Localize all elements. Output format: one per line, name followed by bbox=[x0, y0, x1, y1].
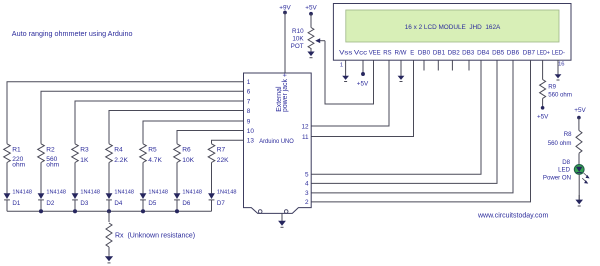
svg-text:LED+: LED+ bbox=[537, 50, 550, 57]
wire VEE to R10 wiper bbox=[325, 41, 374, 104]
svg-text:D2: D2 bbox=[46, 200, 54, 207]
ground at LCD LED- bbox=[555, 60, 562, 80]
svg-text:D5: D5 bbox=[148, 200, 156, 207]
wire Arduino pin 10 to R6 bbox=[177, 131, 244, 144]
svg-text:1: 1 bbox=[247, 79, 251, 86]
svg-text:LED: LED bbox=[558, 167, 570, 174]
svg-text:D3: D3 bbox=[80, 200, 88, 207]
label R10 10K POT bbox=[291, 28, 305, 50]
Arduino right pin number labels bbox=[301, 123, 309, 206]
svg-text:5: 5 bbox=[305, 172, 309, 179]
junction dot at x=143 bbox=[141, 209, 145, 213]
wire +5V to R10 bbox=[310, 14, 312, 28]
svg-text:R/W: R/W bbox=[395, 50, 407, 57]
junction dot at x=41 bbox=[39, 209, 43, 213]
resistor R5 bbox=[140, 144, 147, 163]
ground at LCD R/W bbox=[398, 60, 405, 81]
LCD green screen bbox=[346, 10, 559, 42]
wire DB6 to Arduino pin 3 bbox=[311, 60, 513, 193]
diode D1 1N4148 bbox=[4, 193, 11, 200]
website text bbox=[477, 212, 548, 219]
wire D7 to rail bbox=[211, 200, 213, 212]
svg-text:R9: R9 bbox=[548, 83, 556, 90]
label Rx (Unknown resistance) bbox=[115, 232, 195, 239]
ground below D8 bbox=[575, 195, 583, 206]
wire Arduino pin 1 to R1 bbox=[7, 82, 244, 144]
diode D3 1N4148 bbox=[72, 193, 79, 200]
svg-text:D6: D6 bbox=[182, 200, 190, 207]
svg-text:560 ohm: 560 ohm bbox=[548, 91, 572, 98]
svg-text:560 ohm: 560 ohm bbox=[548, 140, 572, 147]
title text bbox=[12, 29, 133, 38]
wire D3 to rail bbox=[74, 200, 76, 212]
label R8 560 ohm bbox=[548, 131, 572, 147]
diode D4 1N4148 bbox=[106, 193, 113, 200]
svg-text:1N4148: 1N4148 bbox=[114, 189, 134, 195]
wire D4 to rail bbox=[108, 200, 110, 212]
svg-text:D7: D7 bbox=[217, 200, 225, 207]
resistor R3 bbox=[72, 144, 79, 163]
wire DB4 to Arduino pin 5 bbox=[311, 60, 481, 174]
wire R7 to D7 bbox=[211, 163, 213, 194]
svg-text:16 x 2 LCD MODULE JHD 162A: 16 x 2 LCD MODULE JHD 162A bbox=[405, 24, 501, 31]
svg-text:1N4148: 1N4148 bbox=[217, 189, 237, 195]
LCD module outline bbox=[333, 4, 571, 61]
wire R6 to D6 bbox=[176, 163, 178, 194]
wire R4 to D4 bbox=[108, 163, 110, 194]
Arduino left pin number labels bbox=[247, 79, 255, 145]
label D6 1N4148 bbox=[182, 189, 202, 207]
wire DB5 to Arduino pin 4 bbox=[311, 60, 497, 183]
wire R1 to D1 bbox=[6, 163, 8, 194]
wire E to Arduino pin 11 bbox=[311, 60, 413, 136]
diode D2 1N4148 bbox=[38, 193, 45, 200]
wire rail to Rx bbox=[108, 211, 110, 222]
svg-text:DB4: DB4 bbox=[477, 50, 490, 57]
wire R8 to D8 bbox=[578, 153, 580, 164]
svg-text:R8: R8 bbox=[564, 131, 572, 138]
wire +5V to R8 bbox=[578, 118, 580, 131]
svg-text:R10: R10 bbox=[292, 28, 304, 35]
wire D2 to rail bbox=[40, 200, 42, 212]
svg-text:ohm: ohm bbox=[46, 162, 59, 169]
wire Rx to ground bbox=[108, 247, 110, 256]
svg-text:DB0: DB0 bbox=[418, 50, 431, 57]
label R2 value bbox=[46, 146, 59, 168]
wire Arduino pin 9 to R5 bbox=[143, 121, 244, 144]
label R6 value bbox=[182, 146, 194, 164]
node +5V for R8 bbox=[574, 107, 586, 120]
wire Arduino pin 6 to R2 bbox=[41, 91, 244, 144]
svg-text:6: 6 bbox=[247, 89, 251, 96]
label D2 1N4148 bbox=[46, 189, 66, 207]
svg-text:1N4148: 1N4148 bbox=[182, 189, 202, 195]
label D5 1N4148 bbox=[148, 189, 168, 207]
wire R2 to D2 bbox=[40, 163, 42, 194]
Arduino UNO U1 outline bbox=[244, 73, 312, 213]
svg-text:16: 16 bbox=[558, 62, 564, 68]
label D3 1N4148 bbox=[80, 189, 100, 207]
wire D5 to rail bbox=[142, 200, 144, 212]
resistor R9 bbox=[540, 80, 546, 99]
wire DB2 stub bbox=[451, 60, 453, 70]
svg-text:4: 4 bbox=[305, 181, 309, 188]
svg-text:R5: R5 bbox=[148, 146, 157, 153]
svg-text:DB7: DB7 bbox=[523, 50, 536, 57]
svg-text:DB6: DB6 bbox=[507, 50, 520, 57]
wire D8 to ground bbox=[578, 174, 580, 199]
svg-text:10K: 10K bbox=[292, 36, 304, 43]
resistor R7 bbox=[208, 144, 215, 163]
svg-text:+5V: +5V bbox=[574, 107, 586, 114]
label R4 value bbox=[114, 146, 128, 164]
svg-text:11: 11 bbox=[302, 134, 309, 141]
svg-text:10K: 10K bbox=[182, 157, 194, 164]
svg-text:R1: R1 bbox=[12, 146, 21, 153]
label D8 LED Power ON bbox=[543, 159, 571, 181]
Arduino connector circle left bbox=[258, 210, 262, 214]
svg-text:E: E bbox=[410, 50, 414, 57]
node +5V below R9 bbox=[537, 106, 549, 120]
wire D6 to rail bbox=[176, 200, 178, 212]
svg-text:R2: R2 bbox=[46, 146, 55, 153]
svg-text:22K: 22K bbox=[217, 157, 229, 164]
diode D7 1N4148 bbox=[208, 193, 215, 200]
svg-text:DB5: DB5 bbox=[492, 50, 505, 57]
wire D1 to rail bbox=[6, 200, 8, 212]
label R1 value bbox=[12, 146, 25, 168]
wire R9 to +5V bbox=[542, 98, 544, 106]
svg-text:13: 13 bbox=[247, 138, 255, 145]
svg-text:VEE: VEE bbox=[369, 50, 381, 57]
LCD pin 1 number label bbox=[340, 63, 343, 69]
resistor R4 bbox=[106, 144, 113, 163]
resistor R8 bbox=[576, 131, 582, 154]
svg-text:R6: R6 bbox=[182, 146, 191, 153]
ground below Arduino bbox=[278, 213, 286, 227]
label R7 value bbox=[217, 146, 229, 164]
wire bottom common rail bbox=[7, 210, 212, 212]
wire +9V to Arduino power jack bbox=[284, 13, 286, 74]
svg-text:R7: R7 bbox=[217, 146, 226, 153]
svg-text:2.2K: 2.2K bbox=[114, 157, 128, 164]
svg-text:1: 1 bbox=[340, 63, 343, 69]
ground at LCD Vss bbox=[342, 60, 349, 81]
label R3 value bbox=[80, 146, 89, 164]
junction dot at x=177 bbox=[175, 209, 179, 213]
node +9V supply bbox=[279, 5, 291, 15]
svg-text:R4: R4 bbox=[114, 146, 123, 153]
svg-text:1K: 1K bbox=[80, 157, 89, 164]
svg-text:D1: D1 bbox=[12, 200, 20, 207]
svg-text:1N4148: 1N4148 bbox=[46, 189, 66, 195]
LED D8 emission arrows bbox=[582, 173, 589, 184]
node +5V at Vcc bbox=[357, 72, 369, 88]
svg-text:1N4148: 1N4148 bbox=[148, 189, 168, 195]
svg-text:+5V: +5V bbox=[357, 81, 369, 88]
label D7 1N4148 bbox=[217, 189, 237, 207]
resistor R6 bbox=[174, 144, 181, 163]
potentiometer R10 bbox=[308, 28, 314, 49]
resistor R2 bbox=[38, 144, 45, 163]
svg-text:ohm: ohm bbox=[12, 162, 25, 169]
node +5V supply (pot) bbox=[305, 5, 317, 16]
svg-text:D4: D4 bbox=[114, 200, 122, 207]
LED D8 bbox=[574, 165, 584, 175]
wire Arduino pin 7 to R3 bbox=[75, 101, 244, 144]
wire R5 to D5 bbox=[142, 163, 144, 194]
svg-text:1N4148: 1N4148 bbox=[12, 189, 32, 195]
svg-text:2: 2 bbox=[305, 199, 309, 206]
svg-text:3: 3 bbox=[305, 190, 309, 197]
wire Arduino pin 13 to R7 bbox=[212, 140, 244, 144]
label R5 value bbox=[148, 146, 162, 164]
R10 wiper arrow bbox=[315, 38, 325, 43]
LCD pin name labels bbox=[339, 50, 565, 57]
wire DB7 to Arduino pin 2 bbox=[311, 60, 530, 202]
svg-text:Rx (Unknown resistance): Rx (Unknown resistance) bbox=[115, 232, 195, 239]
svg-text:7: 7 bbox=[247, 98, 251, 105]
svg-text:POT: POT bbox=[291, 43, 304, 50]
LCD pin 16 number label bbox=[558, 62, 564, 68]
wire Vss pin bbox=[345, 59, 347, 61]
svg-text:9: 9 bbox=[247, 118, 251, 125]
wire DB3 stub bbox=[468, 60, 470, 70]
wire Arduino pin 8 to R4 bbox=[109, 111, 244, 144]
wire Vcc pin bbox=[362, 60, 364, 73]
svg-text:LED-: LED- bbox=[552, 50, 565, 57]
svg-text:Vss: Vss bbox=[339, 50, 352, 57]
svg-text:Auto ranging ohmmeter using Ar: Auto ranging ohmmeter using Arduino bbox=[12, 29, 133, 38]
svg-text:Arduino UNO: Arduino UNO bbox=[259, 138, 294, 145]
junction dot at x=75 bbox=[73, 209, 77, 213]
svg-text:DB2: DB2 bbox=[448, 50, 461, 57]
label External power jack + bbox=[276, 73, 289, 112]
resistor R1 bbox=[4, 144, 11, 163]
diode D5 1N4148 bbox=[140, 193, 147, 200]
svg-text:+9V: +9V bbox=[279, 5, 291, 12]
wire DB0 stub bbox=[423, 60, 425, 70]
ground below R10 bbox=[307, 48, 314, 58]
LCD title text bbox=[405, 24, 501, 31]
label R9 560 ohm bbox=[548, 83, 572, 98]
diode D6 1N4148 bbox=[174, 193, 181, 200]
label D4 1N4148 bbox=[114, 189, 134, 207]
resistor Rx unknown bbox=[106, 223, 112, 247]
svg-text:8: 8 bbox=[247, 108, 251, 115]
wire RS to Arduino pin 12 bbox=[311, 60, 389, 126]
svg-text:1N4148: 1N4148 bbox=[80, 189, 100, 195]
wire R3 to D3 bbox=[74, 163, 76, 194]
svg-text:12: 12 bbox=[301, 123, 309, 130]
label D1 1N4148 bbox=[12, 189, 32, 207]
svg-text:www.circuitstoday.com: www.circuitstoday.com bbox=[477, 212, 548, 219]
ground below Rx bbox=[105, 256, 113, 263]
svg-text:+5V: +5V bbox=[305, 5, 317, 12]
svg-text:Power ON: Power ON bbox=[543, 174, 571, 181]
svg-text:DB3: DB3 bbox=[462, 50, 475, 57]
svg-text:Vcc: Vcc bbox=[354, 50, 367, 57]
label Arduino UNO bbox=[259, 138, 294, 145]
junction dot at x=109 bbox=[107, 209, 111, 213]
svg-text:10: 10 bbox=[247, 128, 255, 135]
svg-text:R3: R3 bbox=[80, 146, 89, 153]
svg-text:DB1: DB1 bbox=[433, 50, 446, 57]
wire DB1 stub bbox=[437, 60, 439, 70]
svg-text:power jack +: power jack + bbox=[282, 73, 289, 112]
svg-text:+5V: +5V bbox=[537, 113, 549, 120]
svg-text:RS: RS bbox=[383, 50, 391, 57]
svg-text:4.7K: 4.7K bbox=[148, 157, 162, 164]
wire LED+ to R9 bbox=[542, 60, 544, 79]
Arduino connector circle right bbox=[284, 210, 288, 214]
svg-text:D8: D8 bbox=[562, 159, 570, 166]
